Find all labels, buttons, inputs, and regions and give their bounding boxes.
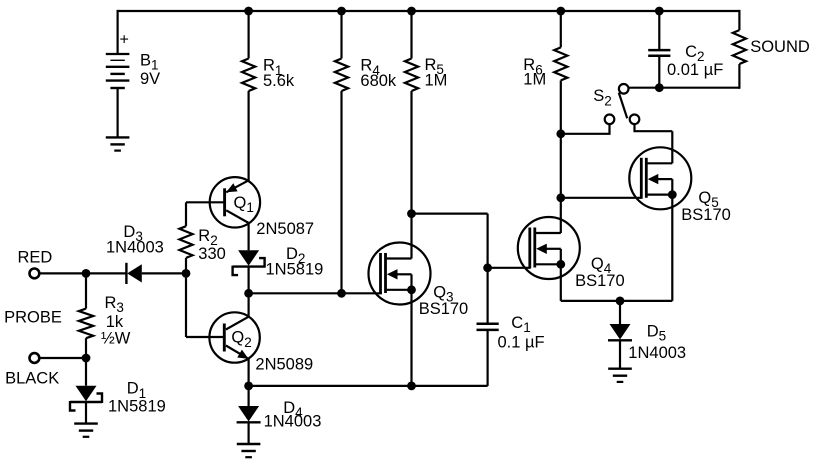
resistor R1 [242, 59, 255, 92]
diode D2 1N5819 [238, 250, 259, 265]
mosfet Q4 BS170 [518, 217, 580, 279]
wire S2 left branch [561, 124, 610, 134]
wire Q1 collector to D2 [248, 223, 250, 250]
svg-text:1M: 1M [523, 71, 546, 89]
svg-text:2N5089: 2N5089 [255, 355, 313, 373]
node top rail / C2 [655, 7, 664, 16]
node R6 / Q5 gate row [556, 193, 565, 202]
svg-text:SOUND: SOUND [750, 38, 810, 56]
wire R6 top [560, 11, 562, 47]
wire bottom rail [249, 385, 488, 387]
svg-text:1N5819: 1N5819 [108, 397, 166, 415]
transistor Q2 collector [226, 316, 249, 329]
wire D2 to gate node [248, 267, 250, 294]
svg-text:BS170: BS170 [681, 206, 731, 224]
node top rail / R1 [244, 7, 253, 16]
wire C2 bottom [658, 56, 660, 88]
resistor R3 [79, 309, 93, 339]
resistor R6 [554, 47, 567, 80]
wire Q3 source down [410, 290, 412, 386]
svg-text:RED: RED [18, 249, 53, 267]
svg-text:1N5819: 1N5819 [266, 261, 324, 279]
wire R5 top [410, 11, 412, 59]
diode D3 1N4003 [125, 263, 127, 284]
mosfet Q3 BS170 [369, 243, 431, 305]
wire Q2 emitter down [248, 359, 250, 386]
node Q3 source / bottom rail [407, 382, 416, 391]
wire R1 top [248, 11, 250, 59]
transistor Q1 base bar [223, 188, 226, 216]
wire D3 to node [142, 272, 186, 274]
transistor Q1 circle [210, 177, 260, 227]
svg-text:2N5087: 2N5087 [256, 220, 314, 238]
wire Q1 base to R2 [185, 202, 187, 226]
svg-text:5.6k: 5.6k [263, 72, 295, 90]
wire probe node down [185, 273, 187, 337]
wire Q2 collector up [248, 293, 250, 316]
node R5 / branch to C1 [407, 209, 416, 218]
node probe / R3 [82, 269, 91, 278]
svg-text:+: + [120, 32, 129, 49]
switch S2 pole [619, 84, 629, 94]
wire C2 top [658, 11, 660, 50]
wire R1 to Q1 emitter [248, 91, 250, 181]
node BLACK / D1 [82, 354, 91, 363]
svg-text:0.01 µF: 0.01 µF [667, 61, 723, 79]
wire R4 to gate row [340, 91, 342, 293]
wire C1 bottom [487, 330, 489, 386]
node Q2 emitter / bottom rail [244, 382, 253, 391]
resistor R2 [179, 226, 192, 258]
node R4 bottom [337, 289, 346, 298]
wire R6 to Q4 drain [560, 80, 562, 233]
svg-text:330: 330 [198, 245, 226, 263]
wire D1 to ground [85, 402, 87, 424]
wire node to D1 [85, 358, 87, 386]
wire node to R3 [85, 273, 87, 308]
wire RED to D3 [40, 272, 127, 274]
transistor Q2 emitter [226, 346, 249, 359]
resistor R5 [405, 59, 418, 92]
wire S2 right branch [635, 124, 673, 131]
wire Q4 source down [560, 264, 562, 301]
wire node to D5 [619, 301, 621, 324]
svg-text:1N4003: 1N4003 [264, 413, 322, 431]
node D3 / R2 / Q2 base [182, 269, 191, 278]
wire C1 top [487, 268, 489, 324]
svg-text:9V: 9V [140, 70, 160, 88]
wire battery to ground [116, 88, 118, 137]
wire branch down [487, 214, 489, 268]
sounder SOUND element [733, 30, 746, 64]
node C2 bottom [655, 83, 664, 92]
node top rail / R5 [407, 7, 416, 16]
wire R3 to BLACK node [85, 338, 87, 358]
wire to Q2 base [186, 336, 224, 338]
ground D5 [608, 368, 632, 370]
switch S2 throw right [630, 115, 640, 125]
node R6 / S2 branch [556, 129, 565, 138]
svg-text:PROBE: PROBE [4, 309, 62, 327]
node top rail / R4 [337, 7, 346, 16]
svg-text:BS170: BS170 [419, 300, 469, 318]
switch S2 arm [619, 93, 627, 119]
wire Q5 gate row [561, 197, 642, 199]
wire SOUND top [738, 10, 740, 30]
svg-text:1k: 1k [106, 313, 124, 331]
capacitor C1 0.1uF [477, 322, 499, 325]
transistor Q2 base bar [223, 324, 226, 352]
wire R5 to Q3 drain [410, 91, 412, 259]
node D2 / Q3 gate row [244, 289, 253, 298]
diode D4 1N4003 [238, 406, 259, 422]
terminal BLACK probe [30, 353, 40, 363]
switch S2 throw left [605, 115, 615, 125]
wire Q1 base row [186, 201, 225, 203]
wire gate row to Q3 [249, 292, 382, 294]
wire R2 to probe node [185, 258, 187, 274]
terminal RED probe [30, 269, 40, 279]
node C1 / Q4 gate [483, 263, 492, 272]
wire R5 branch right [412, 213, 488, 215]
wire Q5 drain up [671, 131, 673, 163]
node D5 top [616, 297, 625, 306]
svg-text:1N4003: 1N4003 [628, 344, 686, 362]
resistor R4 [335, 59, 348, 92]
svg-text:½W: ½W [101, 329, 131, 347]
capacitor C2 0.01uF [648, 49, 670, 52]
wire node to D4 [248, 386, 250, 406]
transistor Q2 circle [209, 312, 259, 362]
wire BLACK to node [40, 357, 86, 359]
transistor Q1 emitter [226, 180, 249, 192]
svg-text:0.1 µF: 0.1 µF [498, 334, 545, 352]
node top rail / R6 [556, 7, 565, 16]
battery B1 [106, 53, 130, 55]
wire top supply rail [118, 10, 740, 12]
wire D5 to ground [619, 341, 621, 369]
wire R4 top [340, 11, 342, 59]
ground D4 [237, 443, 261, 445]
wire SOUND bottom [738, 64, 740, 89]
svg-text:1M: 1M [425, 71, 448, 89]
wire battery top [116, 10, 118, 54]
mosfet Q5 BS170 [629, 147, 691, 209]
svg-text:680k: 680k [360, 72, 397, 90]
diode D1 1N5819 [76, 386, 97, 402]
svg-text:BS170: BS170 [575, 272, 625, 290]
transistor Q1 collector [226, 210, 249, 223]
wire D4 to ground [248, 423, 250, 444]
ground battery [106, 136, 130, 138]
wire Q4-Q5 source rail [561, 300, 673, 302]
svg-text:1N4003: 1N4003 [106, 238, 164, 256]
ground D1 [74, 422, 98, 424]
svg-text:BLACK: BLACK [5, 370, 59, 388]
diode D5 1N4003 [610, 324, 631, 340]
wire Q5 source down [671, 195, 673, 301]
wire S2 to C2 row [629, 87, 739, 89]
wire to Q4 gate [488, 267, 531, 269]
